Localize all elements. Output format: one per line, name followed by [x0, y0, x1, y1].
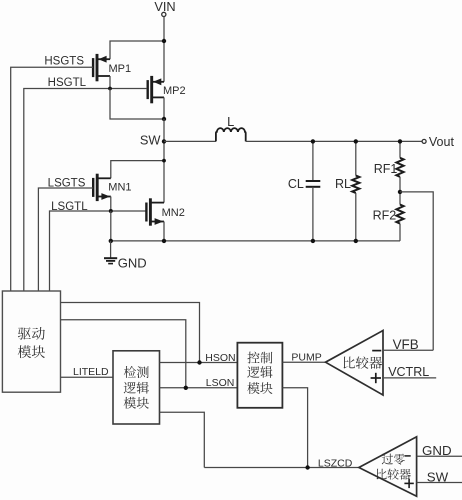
wire MN1 source down: [110, 197, 112, 212]
svg-text:MP1: MP1: [109, 63, 132, 75]
wire MP1 source to VIN rail: [110, 41, 164, 59]
label MP2: [163, 85, 186, 97]
wire LITELD: [61, 376, 114, 378]
ground symbol: [104, 258, 117, 263]
svg-text:VCTRL: VCTRL: [388, 365, 429, 379]
wire LSGTL net: [50, 211, 147, 291]
resistor RF2: [396, 205, 403, 224]
svg-text:CL: CL: [288, 177, 304, 191]
wire feedback tap to comparator: [400, 192, 433, 350]
label LITELD: [73, 366, 109, 378]
label HSGTL: [48, 77, 87, 89]
label SW input: [427, 469, 449, 484]
svg-text:SW: SW: [140, 133, 162, 148]
label LSON: [206, 377, 235, 389]
junction SW branch: [162, 159, 166, 163]
junction MP2 drain: [162, 117, 166, 121]
driver module box (驱动模块): [2, 291, 60, 392]
wire LSON net: [160, 387, 238, 389]
svg-text:GND: GND: [422, 443, 452, 458]
comparator U2 plus sign: [404, 479, 413, 488]
svg-text:RL: RL: [335, 177, 351, 191]
junction CL bottom: [311, 239, 315, 243]
junction LSON: [184, 386, 188, 390]
comparator U1 plus sign: [371, 373, 381, 383]
wire control to LSZCD: [282, 388, 307, 468]
wire RF1 top: [399, 141, 401, 157]
junction HSON: [197, 360, 201, 364]
label HSGTS: [44, 56, 84, 68]
wire MN2 source down: [163, 222, 165, 241]
wire driver output B to LSON: [61, 320, 186, 388]
control module label line1: [247, 352, 272, 364]
svg-text:GND: GND: [118, 255, 147, 270]
driver module label line2: [18, 345, 45, 358]
comparator U2 minus sign: [405, 455, 411, 457]
svg-text:L: L: [227, 114, 234, 129]
svg-text:LSGTS: LSGTS: [48, 177, 86, 189]
svg-text:VIN: VIN: [154, 0, 175, 14]
op-amp comparator U1 (比较器): [326, 331, 384, 396]
label RF2: [373, 209, 397, 223]
svg-text:MN1: MN1: [108, 182, 131, 194]
junction feedback tap: [398, 190, 402, 194]
node SW label: [140, 133, 162, 148]
node Vout terminal: [422, 139, 426, 143]
wire MP2 drain down: [163, 97, 165, 119]
resistor RF1: [396, 158, 403, 177]
transistor MN2: [146, 198, 164, 225]
junction RF1 top: [398, 139, 402, 143]
label MP1: [109, 63, 132, 75]
control logic module box (控制逻辑模块): [237, 343, 282, 408]
svg-text:LSON: LSON: [206, 377, 235, 389]
wire VFB input: [383, 349, 433, 351]
svg-text:VFB: VFB: [393, 337, 419, 352]
wire RF2 bottom: [399, 224, 401, 241]
wire HSON net: [160, 362, 238, 364]
wire GND input: [417, 455, 462, 457]
label L: [227, 114, 234, 129]
label RF1: [374, 162, 398, 176]
label VCTRL: [388, 365, 429, 379]
control module label line2: [247, 366, 272, 378]
capacitor CL: [306, 181, 321, 187]
label LSGTL: [51, 201, 88, 213]
wire SW to inductor: [164, 140, 216, 142]
wire detection to LSZCD: [160, 412, 205, 467]
junction SW: [162, 139, 166, 143]
label CL: [288, 177, 304, 191]
label HSON: [205, 352, 235, 364]
resistor RL: [352, 176, 359, 193]
label MN1: [108, 182, 131, 194]
label Vout: [429, 135, 455, 149]
wire MP1 drain to MP2 drain node: [110, 89, 164, 120]
wire VCTRL input: [383, 377, 436, 379]
wire ground rail: [111, 240, 400, 242]
control module label line3: [247, 382, 272, 394]
svg-text:MN2: MN2: [162, 207, 185, 219]
wire SW to MN1 drain: [111, 161, 164, 179]
wire inductor to Vout: [246, 140, 422, 142]
junction LSZCD: [305, 465, 309, 469]
transistor MP1: [93, 54, 110, 81]
label RL: [335, 177, 351, 191]
wire HSGTL net: [24, 89, 147, 292]
detection module label line2: [124, 382, 149, 394]
svg-text:RF1: RF1: [374, 162, 398, 176]
wire HSGTS net: [11, 67, 93, 291]
svg-text:HSGTS: HSGTS: [44, 56, 84, 68]
svg-text:LSGTL: LSGTL: [51, 201, 88, 213]
wire SW input: [417, 482, 462, 484]
comparator U1 label: [344, 356, 383, 369]
wire driver output A to HSON: [61, 303, 200, 363]
wire PUMP net: [282, 361, 325, 363]
transistor MN1: [93, 174, 111, 201]
label GND input: [422, 443, 452, 458]
junction ground rail left: [109, 239, 113, 243]
junction RL bottom: [354, 239, 358, 243]
label PUMP: [291, 351, 321, 363]
detection module label line3: [124, 397, 149, 409]
junction RL top: [354, 139, 358, 143]
label LSGTS: [48, 177, 86, 189]
node VIN terminal and label: [154, 0, 175, 16]
svg-text:RF2: RF2: [373, 209, 397, 223]
junction CL top: [311, 139, 315, 143]
wire SW vertical: [163, 119, 165, 203]
svg-text:HSGTL: HSGTL: [48, 77, 87, 89]
wire CL bottom: [312, 187, 314, 241]
wire MP1 drain down: [109, 76, 111, 89]
svg-text:LITELD: LITELD: [73, 366, 109, 378]
label GND (power net): [118, 255, 147, 270]
svg-text:HSON: HSON: [205, 352, 235, 364]
svg-text:MP2: MP2: [163, 85, 186, 97]
junction MN1 source / LSGTL: [109, 209, 113, 213]
wire RF1 to RF2: [399, 177, 401, 205]
wire RL bottom: [355, 193, 357, 241]
comparator U1 minus sign: [372, 350, 381, 352]
comparator U2 label line2: [377, 469, 411, 480]
wire LSZCD net: [204, 467, 359, 469]
svg-text:LSZCD: LSZCD: [318, 457, 353, 469]
wire MN1 source to ground rail: [110, 211, 112, 241]
driver module label line1: [18, 327, 45, 340]
svg-text:PUMP: PUMP: [291, 351, 321, 363]
wire ground stub: [110, 241, 112, 258]
detection module label line1: [124, 366, 149, 378]
junction MN2 source on rail: [162, 239, 166, 243]
junction VIN-MP1: [162, 39, 166, 43]
label LSZCD: [318, 457, 353, 469]
junction MP1 drain / HSGTL: [108, 87, 112, 91]
transistor MP2: [148, 76, 164, 103]
wire CL top: [312, 141, 314, 181]
wire RL top: [355, 141, 357, 175]
comparator U2 label line1: [382, 454, 405, 465]
label MN2: [162, 207, 185, 219]
wire LSGTS net: [38, 188, 93, 291]
wire VIN vertical: [163, 17, 165, 82]
label VFB: [393, 337, 419, 352]
svg-text:SW: SW: [427, 469, 449, 484]
op-amp zero-crossing comparator U2 (过零比较器): [359, 437, 417, 497]
inductor L: [216, 128, 246, 141]
svg-text:Vout: Vout: [429, 135, 455, 149]
detection logic module box (检测逻辑模块): [113, 351, 160, 424]
